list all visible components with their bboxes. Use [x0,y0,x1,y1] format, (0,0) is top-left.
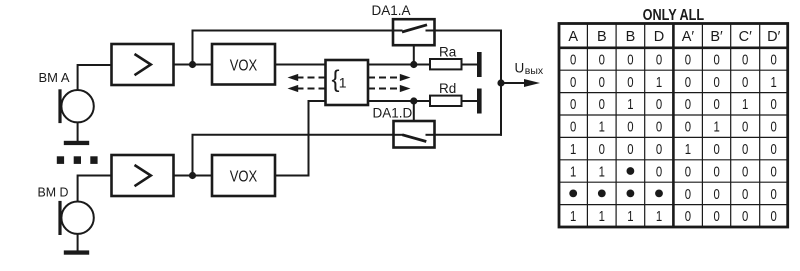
svg-text:0: 0 [713,51,719,68]
node RA (junction DA1.A / Ra) [410,61,417,68]
wire VOX D to block 1 bottom port [275,101,326,176]
wire DA1.A output to right bus [435,30,503,32]
table thick middle divider [672,24,675,228]
svg-text:0: 0 [685,208,691,225]
svg-text:0: 0 [685,51,691,68]
svg-text:0: 0 [656,119,662,136]
svg-text:Rd: Rd [439,81,456,96]
svg-text:B′: B′ [710,29,723,45]
svg-text:0: 0 [771,51,777,68]
wire mic BM A to ground [77,122,79,141]
wire Rd to contact bar D [462,100,478,102]
wire node RD to DA1.D [413,101,415,121]
node D (junction amp D / VOX D / DA1.D) [189,172,196,179]
svg-text:B: B [597,29,607,45]
svg-text:VOX: VOX [230,169,258,186]
svg-text:0: 0 [627,74,633,91]
svg-text:1: 1 [570,163,576,180]
wire node A to DA1.A input [193,31,394,65]
wire right bus [500,30,502,136]
svg-text:0: 0 [570,51,576,68]
svg-text:0: 0 [713,186,719,203]
svg-text:0: 0 [656,96,662,113]
svg-text:0: 0 [627,141,633,158]
resistor Ra [430,59,462,69]
wire amp A output [174,64,213,66]
svg-text:U: U [515,61,525,76]
amplifier D [112,155,174,196]
svg-text:0: 0 [742,51,748,68]
svg-text:1: 1 [570,141,576,158]
wire node D to DA1.D input [193,135,394,176]
svg-text:0: 0 [685,96,691,113]
svg-text:0: 0 [599,141,605,158]
svg-text:0: 0 [742,119,748,136]
contact bar A [477,52,482,77]
truth table ONLY ALL [559,7,788,227]
svg-text:1: 1 [599,208,605,225]
wire mic BM D to ground [77,234,79,251]
svg-text:1: 1 [599,163,605,180]
svg-text:1: 1 [656,208,662,225]
table thin vertical lines [587,24,759,228]
dashed arrow right lower [368,85,411,92]
svg-text:0: 0 [656,141,662,158]
svg-text:0: 0 [685,119,691,136]
svg-text:0: 0 [771,163,777,180]
svg-text:0: 0 [599,96,605,113]
analog switch DA1.D [394,121,435,148]
output arrow Uvyh [501,79,540,87]
svg-text:BM D: BM D [38,185,69,200]
amplifier A [112,44,174,85]
table outer border [559,24,788,228]
svg-text:ONLY ALL: ONLY ALL [643,7,705,24]
svg-text:1: 1 [599,119,605,136]
svg-text:0: 0 [713,163,719,180]
table header separator [559,46,788,49]
svg-text:DA1.A: DA1.A [372,3,411,18]
svg-text:1: 1 [339,75,347,91]
svg-text:1: 1 [627,208,633,225]
wire block 1 bottom output to node RD [368,100,430,102]
svg-text:B: B [626,29,636,45]
svg-text:0: 0 [627,119,633,136]
svg-text:0: 0 [713,74,719,91]
wire node RA to DA1.A [413,45,415,64]
wire VOX A to block 1 [275,64,326,66]
svg-text:0: 0 [771,96,777,113]
svg-text:C′: C′ [739,29,752,45]
node output (junction bus / Uout) [497,79,504,86]
svg-text:1: 1 [570,208,576,225]
wire DA1.D output to right bus [435,134,503,136]
svg-text:0: 0 [742,163,748,180]
svg-text:0: 0 [570,74,576,91]
ground (mic D) [64,250,89,254]
analog switch DA1.A [393,19,435,45]
logic block U1 "{1" [326,60,369,105]
svg-text:0: 0 [599,51,605,68]
svg-text:1: 1 [771,74,777,91]
svg-text:VOX: VOX [230,58,258,75]
ground (mic A) [64,141,89,145]
dashed arrow left upper [288,74,326,81]
dashed arrow left lower [288,85,326,92]
svg-text:0: 0 [627,51,633,68]
VOX A block [212,44,275,85]
svg-text:1: 1 [627,96,633,113]
microphone BM D [60,201,94,235]
resistor Rd [430,96,462,106]
svg-text:вых: вых [525,65,544,77]
wire mic BM A to amplifier A [78,65,112,90]
svg-text:0: 0 [713,141,719,158]
svg-text:0: 0 [771,208,777,225]
svg-text:0: 0 [570,96,576,113]
svg-text:1: 1 [656,74,662,91]
svg-text:Ra: Ra [439,45,457,60]
contact bar D [477,89,482,114]
svg-text:1: 1 [742,96,748,113]
node A (junction amp A / VOX A / DA1.A) [189,61,196,68]
svg-text:0: 0 [713,208,719,225]
svg-text:0: 0 [685,186,691,203]
svg-text:1: 1 [685,141,691,158]
svg-text:0: 0 [713,96,719,113]
svg-text:D′: D′ [767,29,780,45]
wire block 1 top output to node RA [368,64,430,66]
svg-text:0: 0 [656,51,662,68]
svg-text:1: 1 [713,119,719,136]
table header row [568,29,780,45]
svg-text:0: 0 [742,74,748,91]
dashed arrow right upper [368,74,411,81]
node RD (junction DA1.D / Rd) [410,97,417,104]
table thin horizontal lines [559,70,788,204]
label Uvyh [515,61,544,78]
svg-text:D: D [654,29,664,45]
wire mic BM D to amplifier D [78,176,112,202]
svg-text:0: 0 [656,163,662,180]
svg-text:A: A [568,29,578,45]
VOX D block [212,155,275,196]
microphone BM A [60,89,94,123]
wire Ra to contact bar A [462,64,478,66]
svg-text:0: 0 [685,163,691,180]
svg-text:0: 0 [742,141,748,158]
svg-text:0: 0 [685,74,691,91]
svg-text:0: 0 [742,208,748,225]
svg-text:BM A: BM A [39,70,70,85]
svg-text:A′: A′ [682,29,695,45]
svg-text:0: 0 [771,186,777,203]
svg-text:0: 0 [771,141,777,158]
svg-text:DA1.D: DA1.D [373,106,413,121]
svg-text:0: 0 [742,186,748,203]
svg-text:0: 0 [599,74,605,91]
wire amp D output [174,175,213,177]
svg-text:0: 0 [570,119,576,136]
three dots separator [57,156,98,164]
table data rows [569,51,777,225]
svg-text:0: 0 [771,119,777,136]
